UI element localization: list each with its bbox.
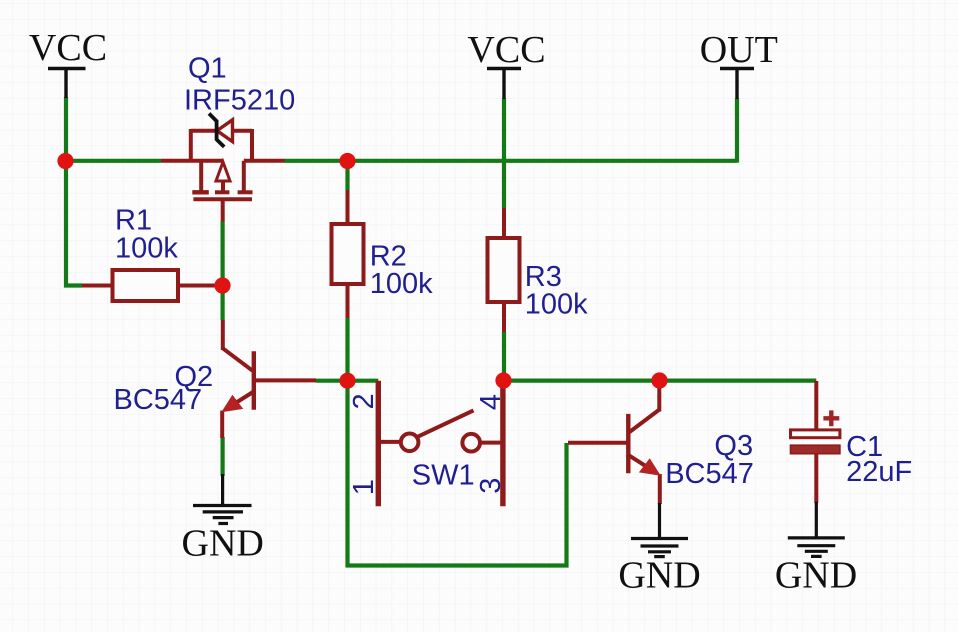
svg-text:22uF: 22uF [846,456,912,488]
resistor R1 [82,270,218,301]
Q2 emitter arrow [221,395,243,413]
transistor Q2 (BC547, mirrored) [222,320,316,438]
wire net VCC-left vertical rail [66,97,82,286]
C1 plus sign [823,410,839,426]
resistor R2 [332,190,364,318]
junction node R3 / SW1-4 [495,372,511,388]
capacitor C1 (polarized 22uF) [791,381,840,503]
power OUT (right) [700,29,778,99]
svg-text:4: 4 [475,394,507,410]
wire OUT drop [735,98,739,162]
wire VCC2 drop to R3 [502,98,506,208]
wire R3 bottom to SW pin4 node [502,332,506,381]
svg-text:BC547: BC547 [114,384,203,416]
junction node gate / R1 / Q2 collector [214,277,230,293]
svg-text:OUT: OUT [700,29,778,71]
svg-text:3: 3 [475,478,507,494]
junction node base / R2 / SW1-2 [339,373,355,389]
wire drain net horizontal [284,159,737,163]
junction node VCC-left / Q1 source [57,153,73,169]
wire Q1 gate node vertical [221,221,225,320]
wire SW pin4 node to C1 [504,379,817,383]
power VCC (left) [29,27,107,98]
svg-text:100k: 100k [115,232,178,264]
Q1 body diode triangle [217,120,233,142]
svg-text:VCC: VCC [29,27,107,69]
wire base node horizontal [316,379,379,383]
Q1 bulk arrow [216,162,230,192]
transistor Q3 (BC547) [568,384,660,504]
switch SW1 [378,381,503,507]
svg-text:GND: GND [775,555,857,597]
resistor R3 [488,208,520,332]
junction node drain / R2 top [339,153,355,169]
wire R2 bottom to base node [345,318,349,381]
svg-text:GND: GND [618,555,700,597]
Q3 emitter arrow [639,458,661,476]
svg-text:SW1: SW1 [412,460,475,492]
svg-text:1: 1 [348,479,380,495]
power VCC (middle) [467,29,545,99]
svg-text:VCC: VCC [467,29,545,71]
svg-text:BC547: BC547 [665,458,754,490]
wire R2 top to drain net [345,161,349,190]
Q1 body diode cathode (black) [209,114,224,147]
svg-text:Q1: Q1 [188,53,227,85]
svg-text:100k: 100k [370,268,433,300]
ground GND (Q3) [631,503,688,557]
svg-text:100k: 100k [525,289,588,321]
svg-text:GND: GND [182,523,264,565]
ground GND (Q2) [193,474,252,524]
transistor Q1 body (PMOS IRF5210) [161,129,285,222]
svg-text:2: 2 [348,393,380,409]
wire net VCC-left to Q1 source [66,159,161,163]
wire base node to Q3 base (bottom run) [348,381,567,566]
svg-text:IRF5210: IRF5210 [184,84,295,116]
ground GND (C1) [788,502,845,557]
junction node Q3 collector / C1 [651,372,667,388]
wire Q2 emitter to ground [221,437,225,476]
